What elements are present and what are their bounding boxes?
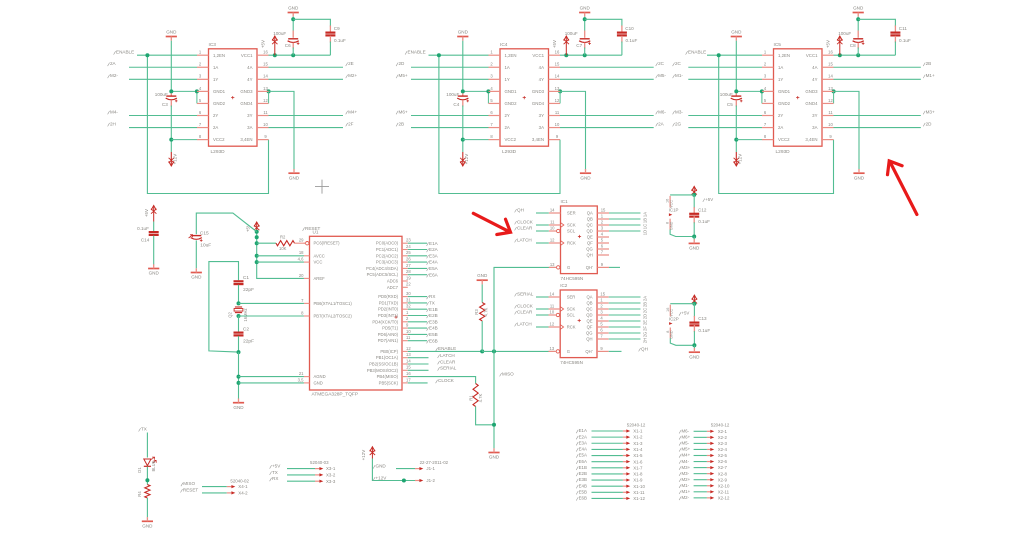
svg-text:X1-10: X1-10 — [633, 484, 645, 489]
svg-text:8: 8 — [666, 222, 670, 224]
wire ground rail to GND1/GND2 pins — [463, 90, 489, 92]
svg-text:QE: QE — [586, 319, 592, 324]
svg-text:R2: R2 — [280, 235, 286, 240]
svg-text:GND: GND — [670, 330, 674, 339]
svg-text:4A: 4A — [247, 65, 252, 70]
supply +5V arrow near IC5 — [839, 36, 841, 55]
svg-text:100uF: 100uF — [273, 31, 286, 36]
svg-text:4Y: 4Y — [812, 77, 817, 82]
svg-text:10: 10 — [555, 122, 560, 127]
wire to ground symbol IC1P — [693, 237, 695, 240]
junction below LED — [145, 478, 149, 482]
supply +5V arrow feeding U1 — [256, 222, 258, 232]
wire MISO to X4-1 — [202, 486, 227, 488]
svg-text:X2-11: X2-11 — [718, 489, 730, 494]
svg-text:IC4: IC4 — [500, 42, 508, 48]
svg-text:3,4EN: 3,4EN — [240, 137, 252, 142]
svg-text:1,2EN: 1,2EN — [778, 53, 790, 58]
svg-text:8: 8 — [490, 134, 493, 139]
wire gnd to decoupling caps — [584, 17, 586, 31]
svg-text:11: 11 — [555, 110, 560, 115]
IC IC1 74HC595N box — [561, 206, 598, 274]
wire / net label E6A — [408, 274, 427, 276]
resistor R1 4.7K — [473, 384, 478, 407]
svg-text:14: 14 — [555, 74, 560, 79]
ground symbol above capacitor C8 — [853, 12, 864, 14]
svg-text:GND2: GND2 — [505, 101, 518, 106]
svg-text:7: 7 — [764, 122, 767, 127]
svg-text:ADC7: ADC7 — [387, 285, 399, 290]
svg-text:RX: RX — [429, 294, 435, 299]
svg-text:C13: C13 — [698, 316, 707, 321]
svg-text:2A: 2A — [643, 296, 648, 301]
svg-text:6: 6 — [600, 327, 603, 332]
svg-text:+5V: +5V — [261, 40, 266, 48]
svg-text:LATCH: LATCH — [517, 321, 532, 326]
svg-text:QF: QF — [587, 325, 593, 330]
svg-text:2Y: 2Y — [505, 113, 510, 118]
svg-text:CLOCK: CLOCK — [517, 303, 534, 308]
ground symbol IC1P — [689, 242, 700, 244]
svg-text:QH: QH — [517, 207, 524, 212]
wire / net label 1C from IC1 QC — [609, 224, 641, 226]
svg-text:10: 10 — [828, 122, 833, 127]
wire IC1P GND to cap bottom — [670, 230, 694, 237]
capacitor C11 0.1uF — [890, 31, 900, 33]
IC IC5 L293D box — [774, 49, 823, 146]
net label MISO — [500, 373, 502, 376]
junction at GND drop — [492, 349, 496, 353]
svg-text:22-27-2011-02: 22-27-2011-02 — [420, 460, 449, 465]
wire / net label 2G from IC2 QG — [609, 332, 641, 334]
svg-text:20: 20 — [299, 273, 304, 278]
svg-text:1A: 1A — [778, 65, 783, 70]
wire / net label E3A — [408, 255, 427, 257]
wire and net label 2E out of IC3 — [269, 66, 344, 68]
svg-text:PB6(XTAL1/TOSC1): PB6(XTAL1/TOSC1) — [314, 301, 353, 306]
wire VCC1 pin 16 of IC5 to +5V rail — [834, 54, 896, 56]
svg-text:C10: C10 — [625, 26, 634, 31]
svg-text:ENABLE: ENABLE — [116, 50, 134, 55]
svg-text:X2-5: X2-5 — [718, 453, 728, 458]
net label E5A to X1-5 — [576, 454, 578, 457]
net label TX to X3-2 — [270, 472, 272, 475]
svg-text:3,5: 3,5 — [298, 377, 304, 382]
wire / net label 2D from IC2 QD — [609, 314, 641, 316]
svg-text:X1-12: X1-12 — [633, 496, 645, 501]
svg-text:+5V: +5V — [144, 209, 149, 217]
svg-text:10: 10 — [550, 225, 555, 230]
supply +12V arrow below IC5 — [735, 152, 737, 166]
ground symbol below R1 — [488, 452, 499, 454]
svg-text:PC4(ADC4/SDA): PC4(ADC4/SDA) — [366, 266, 398, 271]
power part IC2P GND pin 8 — [669, 328, 671, 339]
svg-text:E5A: E5A — [429, 266, 439, 271]
svg-text:GND2: GND2 — [778, 101, 791, 106]
svg-text:VCC2: VCC2 — [213, 137, 225, 142]
svg-text:25: 25 — [406, 250, 411, 255]
svg-text:17: 17 — [406, 377, 411, 382]
svg-text:X2-1: X2-1 — [718, 429, 728, 434]
svg-text:M4+: M4+ — [682, 453, 691, 458]
crosshair mark — [315, 180, 329, 194]
svg-text:4: 4 — [490, 86, 493, 91]
svg-text:E3B: E3B — [579, 477, 587, 482]
capacitor C14 0.1uF on +5V — [153, 206, 155, 222]
wire and net label M3+ out of IC5 — [834, 115, 921, 117]
junction on +12V wire — [402, 479, 406, 483]
net label M4+ to X2-5 — [679, 454, 681, 457]
svg-text:X2-7: X2-7 — [718, 465, 728, 470]
wire XTAL1 to U1 pin 7 — [239, 302, 304, 304]
ground symbol above IC3 — [166, 36, 177, 38]
svg-text:0.1uF: 0.1uF — [698, 328, 710, 333]
net label ENABLE for IC4 — [405, 51, 407, 54]
wire rail up to IC1 G pin — [494, 267, 555, 351]
svg-text:CLEAR: CLEAR — [517, 309, 533, 314]
svg-text:4: 4 — [600, 315, 603, 320]
svg-text:3: 3 — [600, 309, 603, 314]
wire C8 to +5V rail — [857, 43, 859, 49]
wire GND rail down to bulk cap — [735, 41, 737, 90]
svg-text:12: 12 — [263, 98, 268, 103]
wire C11 to +5V rail — [894, 36, 896, 43]
svg-text:X2-2: X2-2 — [718, 435, 728, 440]
svg-text:2F: 2F — [348, 121, 354, 126]
wire and net label 2D into IC4 — [396, 63, 398, 66]
svg-text:E2B: E2B — [429, 313, 438, 318]
svg-text:12: 12 — [550, 237, 555, 242]
svg-text:AGND: AGND — [314, 374, 326, 379]
wire and net label 2F out of IC3 — [269, 127, 344, 129]
wire +12V rail to VCC2 pin 8 — [463, 139, 489, 141]
svg-text:16: 16 — [828, 50, 833, 55]
net label M6- to X2-1 — [679, 430, 681, 433]
wire / net label E2A — [408, 249, 427, 251]
svg-text:2G: 2G — [675, 121, 682, 126]
svg-text:CLEAR: CLEAR — [440, 359, 456, 364]
svg-text:C6: C6 — [285, 43, 291, 48]
svg-text:X2-4: X2-4 — [718, 447, 728, 452]
svg-text:PC1(ADC1): PC1(ADC1) — [376, 247, 399, 252]
wire and net label 2A out of IC4 — [560, 127, 654, 129]
svg-text:J1-1: J1-1 — [426, 466, 435, 471]
svg-text:E1A: E1A — [579, 428, 587, 433]
svg-text:2C: 2C — [675, 61, 682, 66]
junction GND1 pin — [195, 89, 199, 93]
svg-text:PD0(RXD): PD0(RXD) — [378, 294, 398, 299]
wire C2 to gnd junction — [238, 336, 240, 352]
wire / net label 2H from IC2 QH — [609, 338, 641, 340]
svg-text:+5V: +5V — [272, 464, 281, 469]
svg-text:X1-7: X1-7 — [633, 465, 643, 470]
svg-text:27: 27 — [406, 263, 411, 268]
svg-text:12: 12 — [406, 346, 411, 351]
svg-text:VCC1: VCC1 — [532, 53, 544, 58]
net label E1A to X1-1 — [576, 430, 578, 433]
junction ENABLE — [437, 53, 441, 57]
svg-text:2: 2 — [199, 62, 202, 67]
svg-text:21: 21 — [299, 371, 304, 376]
wire / net label E1B — [408, 308, 427, 310]
wire ENABLE to IC3 pin 1 — [137, 54, 197, 56]
svg-text:E6A: E6A — [579, 459, 587, 464]
capacitor C6 100uF decoupling — [288, 38, 298, 40]
wire and net label M2+ out of IC3 — [269, 78, 344, 80]
resistor R2' 10K reset pullup (R3) — [257, 242, 276, 244]
svg-text:X3-3: X3-3 — [326, 479, 336, 484]
svg-text:E6B: E6B — [579, 496, 587, 501]
svg-text:PC5(ADC5/SCL): PC5(ADC5/SCL) — [367, 272, 399, 277]
svg-text:3: 3 — [490, 74, 493, 79]
svg-text:4.7K: 4.7K — [478, 393, 483, 402]
svg-text:C9: C9 — [334, 26, 340, 31]
svg-text:M6+: M6+ — [399, 109, 408, 114]
junction +12V rail at VCC2 — [169, 138, 173, 142]
wire QH' output of IC2 — [609, 350, 622, 352]
svg-text:6: 6 — [199, 110, 202, 115]
svg-text:2B: 2B — [926, 61, 932, 66]
svg-text:VCC1: VCC1 — [806, 53, 818, 58]
net label E3B to X1-9 — [576, 479, 578, 482]
wire / net label E3B — [408, 321, 427, 323]
wire GND rail down to bulk cap — [462, 41, 464, 90]
capacitor C15 10uF with +5V wire — [196, 213, 256, 234]
svg-text:VCC2: VCC2 — [505, 137, 517, 142]
svg-text:VCC1: VCC1 — [241, 53, 253, 58]
wire +12V to J1-2 — [372, 459, 415, 481]
svg-text:QH': QH' — [585, 349, 592, 354]
svg-text:SER: SER — [567, 211, 576, 216]
svg-text:C4: C4 — [453, 102, 459, 107]
wire and net label 2C out of IC4 — [560, 66, 654, 68]
svg-text:GND4: GND4 — [532, 101, 545, 106]
svg-text:2B: 2B — [643, 302, 648, 307]
svg-text:1: 1 — [490, 50, 493, 55]
svg-text:X2-9: X2-9 — [718, 477, 728, 482]
svg-text:GND: GND — [233, 405, 244, 410]
svg-text:CLOCK: CLOCK — [517, 219, 534, 224]
svg-text:VCC: VCC — [314, 260, 323, 265]
svg-text:M1+: M1+ — [682, 489, 691, 494]
ground symbol below R4 — [142, 520, 153, 522]
svg-text:IC5: IC5 — [774, 42, 782, 48]
ground symbol above R3 — [477, 279, 488, 281]
svg-text:+12V: +12V — [376, 476, 388, 481]
svg-text:QF: QF — [587, 241, 593, 246]
wire / net label TX — [408, 302, 427, 304]
svg-text:ENABLE: ENABLE — [688, 50, 706, 55]
svg-text:ADC6: ADC6 — [387, 279, 399, 284]
ground symbol below C15 — [191, 272, 202, 274]
svg-text:M6+: M6+ — [682, 435, 691, 440]
svg-text:PD3(INT1): PD3(INT1) — [378, 313, 399, 318]
capacitor C5 100uF bulk — [731, 95, 741, 97]
net label GND to J1-1 — [373, 465, 375, 468]
wire crystal column (C1 top gnd loop) — [209, 262, 239, 353]
svg-text:GND4: GND4 — [240, 101, 253, 106]
svg-text:0.1uF: 0.1uF — [626, 38, 638, 43]
wire bulk cap to +12V rail — [170, 100, 172, 106]
svg-text:C15: C15 — [200, 230, 209, 236]
svg-text:100uF: 100uF — [155, 92, 168, 97]
net label M4- to X2-6 — [679, 460, 681, 463]
net label MISO to X4 — [181, 483, 183, 486]
svg-text:C11: C11 — [899, 26, 908, 31]
svg-text:IC1P: IC1P — [669, 208, 679, 213]
junction gnd IC1P — [692, 235, 696, 239]
svg-text:0.1uF: 0.1uF — [899, 38, 911, 43]
svg-text:ATMEGA328P_TQFP: ATMEGA328P_TQFP — [312, 392, 359, 398]
svg-text:2A: 2A — [658, 121, 665, 126]
net label M2+ to X2-9 — [679, 479, 681, 482]
svg-text:4A: 4A — [539, 65, 544, 70]
junction ENABLE / R2 pulldown — [480, 349, 484, 353]
svg-text:10uF: 10uF — [200, 242, 211, 248]
svg-text:+5V: +5V — [826, 40, 831, 48]
svg-text:16: 16 — [666, 308, 670, 312]
svg-text:X1-9: X1-9 — [633, 478, 643, 483]
svg-text:X1-3: X1-3 — [633, 441, 643, 446]
svg-text:+12V: +12V — [737, 154, 742, 165]
svg-text:QG: QG — [586, 247, 593, 252]
svg-text:4: 4 — [601, 231, 604, 236]
wire IC2P GND to cap bottom — [670, 338, 694, 345]
svg-text:52040-02: 52040-02 — [230, 478, 249, 483]
svg-text:C12: C12 — [698, 207, 707, 212]
wire ground rail to GND1/GND2 pins — [736, 90, 762, 92]
svg-text:6: 6 — [490, 110, 493, 115]
svg-text:4A: 4A — [812, 65, 817, 70]
svg-text:3A: 3A — [247, 125, 252, 130]
wire +5V column to AREF — [257, 232, 304, 279]
junction +12V rail at VCC2 — [734, 138, 738, 142]
svg-text:4.7K: 4.7K — [483, 307, 488, 316]
svg-text:M3+: M3+ — [682, 465, 691, 470]
svg-text:M3-: M3- — [682, 471, 690, 476]
svg-text:QH: QH — [586, 337, 592, 342]
wire ENABLE from PB0 — [408, 350, 482, 352]
svg-text:16: 16 — [555, 50, 560, 55]
wire / net label CLEAR into IC1 SCL — [536, 230, 549, 232]
svg-text:E4B: E4B — [429, 326, 438, 331]
wire / net label 1A from IC1 QA — [609, 212, 641, 214]
svg-text:22pF: 22pF — [243, 338, 254, 344]
svg-text:GND: GND — [458, 29, 469, 34]
svg-text:8: 8 — [666, 331, 670, 333]
svg-text:10: 10 — [406, 329, 411, 334]
wire / net label CLOCK into IC1 SCK — [536, 224, 549, 226]
supply +12V arrow below IC4 — [462, 152, 464, 166]
ground symbol above capacitor C6 — [288, 12, 299, 14]
svg-text:E3A: E3A — [579, 440, 587, 445]
wire GND3/GND4 of IC4 to lower ground — [558, 89, 562, 93]
svg-text:4,6: 4,6 — [298, 257, 304, 262]
svg-text:7: 7 — [301, 298, 304, 303]
supply +12V arrow at J1 — [371, 447, 373, 459]
svg-text:11: 11 — [263, 110, 268, 115]
net label RESET to X4 — [181, 489, 183, 492]
svg-text:M1-: M1- — [682, 483, 690, 488]
net label E5B to X1-11 — [576, 491, 578, 494]
wire and net label M5- out of IC4 — [560, 78, 654, 80]
svg-text:GND1: GND1 — [505, 89, 518, 94]
capacitor C1 22pF — [234, 280, 244, 282]
wire ground rail to GND symbol (shift registers) — [493, 351, 495, 448]
ground symbol above IC5 — [731, 36, 742, 38]
IC U1 ATMEGA328P_TQFP box — [310, 236, 403, 390]
svg-text:14: 14 — [828, 74, 833, 79]
svg-text:9: 9 — [406, 323, 409, 328]
power part IC2P VCC pin 16 — [669, 305, 671, 317]
wire gnd to decoupling caps — [857, 17, 859, 31]
svg-text:X2-10: X2-10 — [718, 483, 730, 488]
svg-text:100uF: 100uF — [838, 31, 851, 36]
ground symbol above IC4 — [457, 36, 468, 38]
svg-text:L293D: L293D — [502, 149, 517, 155]
capacitor C8 100uF decoupling — [853, 38, 863, 40]
net label E3A to X1-3 — [576, 442, 578, 445]
svg-text:GND: GND — [191, 275, 202, 280]
svg-text:5: 5 — [600, 321, 603, 326]
svg-text:ENABLE: ENABLE — [438, 346, 456, 351]
wire / net label 2B from IC2 QB — [609, 302, 641, 304]
wire AGND — [239, 376, 304, 378]
svg-text:10K: 10K — [279, 246, 287, 251]
capacitor C2 22pF — [234, 332, 244, 334]
junction ground rail — [734, 89, 738, 93]
svg-text:100uF: 100uF — [565, 31, 578, 36]
net label E2A to X1-2 — [576, 436, 578, 439]
power part IC1P VCC pin 16 — [669, 196, 671, 208]
capacitor C7 100uF decoupling — [580, 38, 590, 40]
wire / net label 2E from IC2 QE — [609, 320, 641, 322]
svg-text:GND: GND — [731, 29, 742, 34]
svg-text:PC0(ADC0): PC0(ADC0) — [376, 241, 399, 246]
ground symbol below IC4 — [580, 172, 591, 174]
svg-text:M4+: M4+ — [348, 109, 357, 114]
svg-text:+12V: +12V — [172, 154, 177, 165]
wire +5V to IC2P VCC pin — [670, 303, 694, 305]
svg-text:QH: QH — [641, 346, 648, 351]
wire PB2 CLEAR — [408, 363, 429, 365]
svg-text:C7: C7 — [576, 43, 582, 48]
svg-text:GND: GND — [689, 246, 700, 251]
svg-text:M1-: M1- — [675, 73, 683, 78]
crystal Q2 16MHz — [235, 306, 242, 308]
svg-text:PC3(ADC3): PC3(ADC3) — [376, 260, 399, 265]
svg-text:IC2P: IC2P — [669, 316, 679, 321]
net label E6A to X1-6 — [576, 460, 578, 463]
ground symbol below C14 — [148, 268, 159, 270]
svg-text:E1A: E1A — [429, 241, 439, 246]
svg-text:E6B: E6B — [429, 338, 438, 343]
svg-text:GND: GND — [580, 175, 591, 180]
wire / net label CLEAR into IC2 SCL — [536, 314, 549, 316]
wire C1 to XTAL1 — [238, 285, 240, 304]
svg-text:74HC595N: 74HC595N — [560, 360, 583, 365]
wire / net label E6B — [408, 340, 427, 342]
red annotation arrow pointing at IC5 area — [888, 161, 917, 215]
net label M5+ to X2-4 — [679, 448, 681, 451]
svg-text:E4A: E4A — [579, 447, 587, 452]
wire to ground symbol IC2P — [693, 345, 695, 348]
svg-text:G: G — [567, 265, 570, 270]
svg-text:PC2(ADC2): PC2(ADC2) — [376, 253, 399, 258]
svg-text:19: 19 — [406, 275, 411, 280]
svg-text:2A: 2A — [778, 125, 783, 130]
svg-text:Q2: Q2 — [228, 312, 233, 318]
